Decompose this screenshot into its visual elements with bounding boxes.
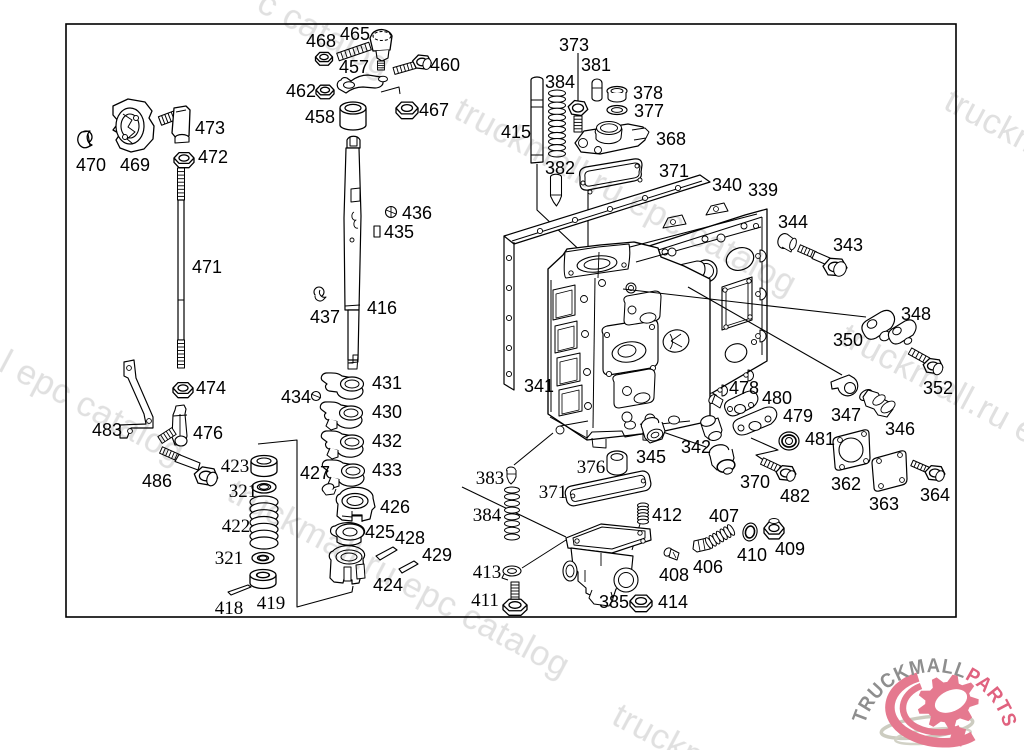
svg-text:437: 437 xyxy=(310,307,340,327)
svg-text:474: 474 xyxy=(196,378,226,398)
svg-text:340: 340 xyxy=(712,175,742,195)
svg-text:364: 364 xyxy=(920,485,950,505)
pin 435 xyxy=(374,226,380,237)
svg-text:413: 413 xyxy=(473,562,502,583)
cap 378 xyxy=(607,87,627,96)
svg-text:473: 473 xyxy=(195,118,225,138)
svg-text:407: 407 xyxy=(709,506,739,526)
bracket 469 xyxy=(113,99,154,152)
rod 471 threads top xyxy=(178,168,185,200)
svg-text:410: 410 xyxy=(737,545,767,565)
housing 341 circle w wings xyxy=(661,327,692,355)
svg-text:436: 436 xyxy=(402,203,432,223)
svg-text:462: 462 xyxy=(286,81,316,101)
svg-text:433: 433 xyxy=(372,460,402,480)
leader 412 xyxy=(632,524,640,550)
bolt 482 xyxy=(761,458,781,472)
bolt 364 xyxy=(911,460,929,472)
leader 373 lower xyxy=(587,170,589,258)
svg-text:348: 348 xyxy=(901,304,931,324)
pin 418 xyxy=(228,585,251,595)
gasket 480 xyxy=(725,391,758,416)
valve 424 xyxy=(329,546,364,584)
svg-text:465: 465 xyxy=(340,24,370,44)
washer 419 xyxy=(250,575,276,589)
svg-text:352: 352 xyxy=(923,378,953,398)
svg-text:408: 408 xyxy=(659,565,689,585)
svg-text:467: 467 xyxy=(419,100,449,120)
bolt 411 xyxy=(511,582,519,600)
ring 377 xyxy=(607,106,627,115)
svg-text:435: 435 xyxy=(384,222,414,242)
bolt 343 xyxy=(798,245,817,258)
plug 409 xyxy=(764,528,784,539)
nut 474 xyxy=(173,388,193,398)
svg-text:truckmall: truckmall xyxy=(938,81,1024,183)
svg-text:384: 384 xyxy=(473,505,502,526)
svg-text:350: 350 xyxy=(833,330,863,350)
housing bottom face xyxy=(550,417,690,438)
hook 347 xyxy=(831,375,858,396)
svg-text:385: 385 xyxy=(599,592,629,612)
svg-text:346: 346 xyxy=(885,419,915,439)
svg-text:486: 486 xyxy=(142,471,172,491)
svg-text:478: 478 xyxy=(729,378,759,398)
valve 383 xyxy=(507,467,516,473)
border frame xyxy=(66,24,956,617)
gasket 479 xyxy=(733,407,777,435)
housing 341 upper flange xyxy=(624,291,661,325)
svg-text:479: 479 xyxy=(783,406,813,426)
cover 368 xyxy=(575,124,647,154)
plug 381 xyxy=(592,79,602,101)
bolt 408 xyxy=(662,546,673,557)
svg-text:476: 476 xyxy=(193,423,223,443)
bushing 481 xyxy=(779,432,799,450)
gasket 348 xyxy=(888,320,916,344)
housing 341 outline xyxy=(548,242,710,440)
spring 422 xyxy=(250,496,278,508)
pin 429 xyxy=(399,561,418,573)
bracket 483 xyxy=(120,360,153,438)
pin 478 xyxy=(707,393,719,405)
housing 341 turret xyxy=(564,244,630,278)
housing 341 centre opening xyxy=(602,319,658,375)
svg-text:341: 341 xyxy=(524,376,554,396)
leader to 348 350 xyxy=(623,289,866,317)
gasket 340 xyxy=(504,175,710,390)
svg-text:l epc catalog: l epc catalog xyxy=(0,343,191,473)
svg-text:483: 483 xyxy=(92,420,122,440)
leader 415 xyxy=(537,164,588,258)
housing top band xyxy=(630,214,757,247)
nut 470 xyxy=(80,131,92,143)
bolt 460 xyxy=(393,62,416,75)
svg-text:480: 480 xyxy=(762,388,792,408)
leader 373 xyxy=(577,53,579,102)
washer 321b xyxy=(252,553,274,564)
plug 382 xyxy=(551,174,562,180)
svg-text:321: 321 xyxy=(215,548,244,569)
svg-text:424: 424 xyxy=(373,575,403,595)
clip 436 xyxy=(386,207,397,218)
nut 468 xyxy=(316,57,333,65)
piston 406 xyxy=(693,538,711,552)
svg-text:432: 432 xyxy=(372,431,402,451)
cam 426 xyxy=(336,487,375,521)
leader to body 385 xyxy=(462,487,566,537)
svg-text:429: 429 xyxy=(422,545,452,565)
svg-text:425: 425 xyxy=(365,522,395,542)
bushing 437 xyxy=(314,287,324,297)
svg-text:368: 368 xyxy=(656,129,686,149)
plate 339 details xyxy=(723,244,757,274)
washer 413 xyxy=(503,566,521,576)
rod 471 shaft xyxy=(178,200,184,340)
svg-text:423: 423 xyxy=(221,456,250,477)
logo gray dish swoosh xyxy=(849,655,1021,747)
plate 339 xyxy=(646,209,767,425)
svg-text:430: 430 xyxy=(372,402,402,422)
leader 413 xyxy=(522,540,566,568)
spring 412 xyxy=(638,503,649,508)
bolt 373 xyxy=(568,101,588,116)
svg-text:418: 418 xyxy=(215,598,244,619)
svg-text:481: 481 xyxy=(805,429,835,449)
svg-text:416: 416 xyxy=(367,298,397,318)
svg-text:370: 370 xyxy=(740,472,770,492)
ring 410 xyxy=(741,522,758,543)
svg-text:412: 412 xyxy=(652,505,682,525)
svg-text:382: 382 xyxy=(545,158,575,178)
valve 346 xyxy=(858,387,875,402)
bushing 458 xyxy=(340,108,366,130)
svg-text:422: 422 xyxy=(222,516,251,537)
plug 427 xyxy=(321,482,335,494)
gasket 350 xyxy=(862,310,895,339)
bracket line for 423 column xyxy=(258,440,353,607)
svg-text:469: 469 xyxy=(120,155,150,175)
svg-text:381: 381 xyxy=(581,55,611,75)
valve body 385 xyxy=(566,524,651,553)
svg-text:363: 363 xyxy=(869,494,899,514)
lever 433 xyxy=(322,460,364,486)
svg-text:427: 427 xyxy=(300,463,330,483)
gasket 371 top xyxy=(580,159,642,190)
bolt 344 xyxy=(776,232,792,250)
svg-text:321: 321 xyxy=(229,481,258,502)
svg-text:457: 457 xyxy=(339,57,369,77)
bolt 352 xyxy=(908,348,929,364)
leader to 347 xyxy=(688,287,842,375)
svg-text:411: 411 xyxy=(471,590,499,611)
svg-text:428: 428 xyxy=(395,528,425,548)
svg-text:472: 472 xyxy=(198,147,228,167)
svg-text:470: 470 xyxy=(76,155,106,175)
rod 416 body xyxy=(344,148,361,310)
lever 432 xyxy=(321,431,363,457)
svg-text:371: 371 xyxy=(659,161,689,181)
rod 416 top cap xyxy=(347,136,360,148)
bolt 465 ball head xyxy=(370,30,392,51)
logo pink swirl crescent xyxy=(890,677,973,743)
svg-text:376: 376 xyxy=(577,457,606,478)
nut 467 xyxy=(396,108,418,119)
svg-text:471: 471 xyxy=(192,257,222,277)
svg-text:362: 362 xyxy=(831,474,861,494)
bolt 486 xyxy=(160,447,181,461)
plate 339 inner edges xyxy=(649,217,762,253)
svg-text:409: 409 xyxy=(775,539,805,559)
lever 430 xyxy=(320,402,362,428)
pin 428 xyxy=(376,547,397,560)
cup 370 xyxy=(708,443,731,462)
svg-text:347: 347 xyxy=(831,405,861,425)
svg-text:434: 434 xyxy=(281,387,311,407)
svg-text:345: 345 xyxy=(636,447,666,467)
svg-text:384: 384 xyxy=(545,72,575,92)
svg-text:482: 482 xyxy=(780,486,810,506)
svg-text:415: 415 xyxy=(501,122,531,142)
elbow valve 476 xyxy=(172,405,187,445)
svg-text:377: 377 xyxy=(634,101,664,121)
svg-text:414: 414 xyxy=(658,592,688,612)
svg-text:426: 426 xyxy=(380,497,410,517)
leader 467 xyxy=(381,87,400,94)
rod 416 lower xyxy=(348,310,359,360)
clip 434 xyxy=(312,392,321,401)
logo pink gear xyxy=(918,675,979,729)
bushing 423 xyxy=(251,461,277,477)
plate 363 xyxy=(872,451,907,491)
ring 376 xyxy=(607,451,627,463)
svg-text:378: 378 xyxy=(633,83,663,103)
nut 472 xyxy=(174,158,194,168)
svg-text:343: 343 xyxy=(833,235,863,255)
leader Z 479-482 xyxy=(751,438,778,465)
spring 407 xyxy=(704,537,714,550)
housing 341 bottom details xyxy=(622,412,632,422)
pin 415 xyxy=(531,77,543,163)
gasket 371 bottom xyxy=(564,470,652,507)
svg-text:460: 460 xyxy=(430,55,460,75)
svg-text:468: 468 xyxy=(306,31,336,51)
bushing 345 xyxy=(639,415,660,432)
nut 462 xyxy=(316,90,334,99)
svg-text:342: 342 xyxy=(681,437,711,457)
svg-text:truckmall: truckmall xyxy=(606,696,752,750)
svg-text:344: 344 xyxy=(778,212,808,232)
leader to 383 xyxy=(514,433,553,465)
spring 384 top xyxy=(549,90,566,96)
lever 431 xyxy=(321,373,363,399)
guide 425 xyxy=(331,523,365,546)
housing 341 left ribs xyxy=(553,285,575,320)
bolt 465 thread xyxy=(337,42,372,61)
housing 341 lower plate xyxy=(613,369,655,408)
plate 362 xyxy=(833,430,870,470)
svg-text:339: 339 xyxy=(748,180,778,200)
washer 321a xyxy=(252,481,276,493)
svg-text:406: 406 xyxy=(693,557,723,577)
svg-text:431: 431 xyxy=(372,373,402,393)
svg-text:419: 419 xyxy=(257,593,286,614)
spring 384 bottom xyxy=(505,487,520,493)
bushing 342 xyxy=(701,418,722,440)
elbow fitting 473 xyxy=(158,111,177,125)
logo arc text xyxy=(865,672,1005,729)
lever 457 xyxy=(337,75,383,93)
svg-text:373: 373 xyxy=(559,35,589,55)
nut 414 xyxy=(630,601,652,612)
svg-text:371: 371 xyxy=(539,482,568,503)
rod 471 threads bottom xyxy=(178,340,185,368)
svg-text:458: 458 xyxy=(305,107,335,127)
leader to 342 370 xyxy=(640,424,706,447)
svg-text:383: 383 xyxy=(476,468,505,489)
